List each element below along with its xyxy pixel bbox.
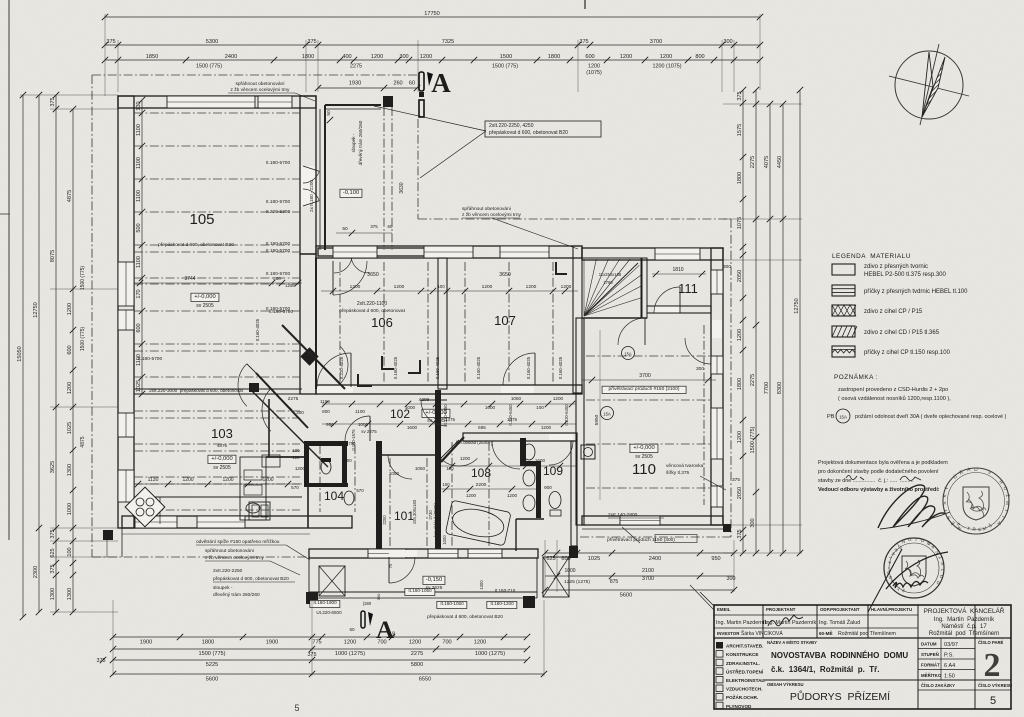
door arcs corridor 102 [421, 400, 447, 426]
svg-text:300: 300 [723, 39, 732, 45]
svg-text:ker.obklad (2500): ker.obklad (2500) [456, 440, 490, 445]
svg-text:spřáhnout obetonování: spřáhnout obetonování [235, 81, 285, 87]
svg-text:1800: 1800 [202, 640, 214, 646]
svg-text:zdivo z přesných tvornic: zdivo z přesných tvornic [864, 264, 928, 270]
svg-text:1800: 1800 [737, 378, 743, 390]
shower corner 108 [492, 441, 520, 469]
svg-text:1500 (775): 1500 (775) [492, 64, 518, 70]
svg-text:1600: 1600 [407, 425, 418, 430]
svg-text:1200: 1200 [409, 640, 421, 646]
svg-text:přepáskovat d 600, obetonovat: přepáskovat d 600, obetonovat B20 [213, 576, 289, 582]
svg-text:1810: 1810 [672, 267, 683, 273]
svg-text:It.160-4025: It.160-4025 [526, 356, 531, 379]
svg-text:sloupek -: sloupek - [351, 133, 356, 152]
svg-text:It.220-4025: It.220-4025 [339, 356, 344, 379]
svg-text:It.160-1050: It.160-1050 [440, 601, 464, 606]
svg-text:1200: 1200 [737, 329, 743, 341]
svg-text:PŮDORYS PŘÍZEMÍ: PŮDORYS PŘÍZEMÍ [790, 690, 890, 703]
svg-text:1600: 1600 [485, 405, 496, 410]
svg-text:ARCHIT.STAVEB.: ARCHIT.STAVEB. [726, 644, 763, 649]
svg-text:ZDRAV.INSTAL.: ZDRAV.INSTAL. [726, 661, 760, 666]
legend box 2 hebel partition [832, 285, 855, 296]
svg-text:2400: 2400 [225, 54, 237, 60]
dim chain inside 106 107 [321, 290, 578, 292]
wing door on right wall arc [685, 338, 711, 364]
right wall 105 lower segment [300, 254, 316, 394]
door arc 108 chamfer [441, 458, 478, 466]
north arrow compass [895, 51, 963, 119]
rooms 106 107 bottom wall [316, 385, 582, 394]
svg-text:stavby ze dne ...............: stavby ze dne ............... č. j.: ...… [818, 478, 914, 484]
dim chain top 17750 [105, 16, 760, 18]
svg-text:5: 5 [990, 695, 996, 707]
svg-text:375: 375 [370, 224, 378, 229]
svg-text:It.180-5700: It.180-5700 [266, 160, 291, 166]
svg-text:4875: 4875 [80, 436, 86, 447]
stamp zalud circle [884, 538, 944, 598]
dim chain bottom row2 [113, 648, 527, 650]
dim 1930 over entry [318, 87, 417, 89]
svg-text:110: 110 [632, 461, 656, 478]
fixtures column 108 [523, 444, 535, 460]
svg-text:1200: 1200 [344, 640, 356, 646]
svg-text:It.180-5700: It.180-5700 [269, 309, 294, 315]
room 103 level box [208, 455, 236, 463]
leader lines to entry column [374, 106, 486, 131]
svg-text:přepáskovat d 600, obetonovat: přepáskovat d 600, obetonovat B20 [427, 614, 503, 620]
svg-text:1600: 1600 [535, 458, 546, 463]
svg-text:1130: 1130 [148, 477, 159, 483]
svg-text:2275: 2275 [750, 374, 756, 386]
svg-text:It.180-5700: It.180-5700 [266, 248, 291, 254]
annotation pruduch boxed [602, 386, 686, 393]
wall between 108 109 stepped [520, 438, 526, 466]
pantry basin [262, 455, 280, 467]
svg-text:1200: 1200 [182, 477, 193, 483]
dim chain right 2275 [755, 90, 757, 553]
windows top wall 105 [167, 96, 255, 108]
svg-text:1050: 1050 [415, 466, 426, 471]
svg-text:600: 600 [585, 54, 594, 60]
svg-text:107: 107 [494, 313, 516, 328]
svg-text:přepáskovat d 600, obetonovat: přepáskovat d 600, obetonovat B20 [489, 130, 568, 136]
svg-text:100: 100 [442, 482, 450, 487]
svg-text:ker.obklad (2500): ker.obklad (2500) [433, 503, 438, 537]
svg-text:A: A [431, 68, 451, 98]
toilet 109 [549, 492, 561, 509]
svg-text:1000: 1000 [442, 535, 447, 545]
rooms 108 109 top wall [463, 433, 577, 441]
room 107 right wall / wing left wall [573, 246, 582, 393]
svg-text:2275: 2275 [350, 64, 362, 70]
svg-text:5: 5 [294, 703, 299, 713]
svg-text:sv 2505: sv 2505 [213, 465, 231, 471]
svg-text:požární odolnost dveří 30A ( d: požární odolnost dveří 30A ( dveře oplec… [855, 414, 1007, 420]
svg-text:5300: 5300 [206, 39, 218, 45]
svg-text:375: 375 [50, 97, 56, 106]
svg-text:2x It.180 - 2200: 2x It.180 - 2200 [309, 180, 314, 212]
svg-text:1225 (1275): 1225 (1275) [564, 579, 590, 585]
svg-text:1100: 1100 [136, 157, 142, 169]
svg-text:800: 800 [322, 409, 330, 414]
legend box 5 zigzag [832, 346, 855, 357]
title block signature scribble [768, 615, 803, 626]
svg-text:260: 260 [393, 81, 402, 87]
section mark A top [419, 72, 424, 91]
svg-text:1100: 1100 [355, 409, 365, 414]
corridor 102 dim chain upper [322, 403, 576, 405]
svg-text:375: 375 [50, 529, 56, 538]
dim chain right inner [742, 90, 744, 553]
rooms 106 107 top wall [316, 246, 582, 258]
svg-text:1200: 1200 [67, 382, 73, 394]
svg-text:105: 105 [189, 211, 214, 228]
svg-text:700: 700 [349, 441, 357, 446]
svg-text:1900: 1900 [266, 640, 278, 646]
svg-text:300: 300 [750, 518, 756, 527]
svg-text:přívětrávací průduch 1150 (300: přívětrávací průduch 1150 (300) [607, 536, 675, 543]
kitchen stove [125, 487, 165, 527]
svg-text:z žb věncem ocelovými trny: z žb věncem ocelovými trny [462, 212, 522, 218]
svg-text:100: 100 [437, 284, 445, 289]
dim chain inside 103 [134, 483, 302, 485]
title block header rows [714, 614, 918, 616]
roof overhang dash-dot courtyard [417, 119, 419, 219]
svg-text:It.160-710: It.160-710 [495, 588, 516, 593]
svg-text:2300: 2300 [33, 566, 39, 578]
svg-text:sv 2275: sv 2275 [361, 429, 377, 434]
svg-text:P.S.: P.S. [944, 653, 954, 659]
column crosshatch right [543, 557, 569, 597]
svg-text:2275: 2275 [288, 396, 299, 402]
door 101 top [388, 455, 412, 479]
dim chain top second [105, 44, 760, 46]
svg-text:1300: 1300 [479, 580, 484, 590]
svg-text:5225: 5225 [206, 662, 218, 668]
svg-text:3700: 3700 [639, 373, 651, 379]
svg-text:100: 100 [536, 405, 544, 410]
svg-text:2xIt.140-2800: 2xIt.140-2800 [608, 512, 638, 518]
wing bottom wall [582, 516, 723, 525]
svg-text:2275: 2275 [411, 651, 423, 657]
svg-text:It.160-4025: It.160-4025 [255, 318, 260, 341]
svg-text:1000: 1000 [405, 405, 416, 410]
kitchen counter 103 [134, 496, 302, 498]
svg-text:875: 875 [610, 579, 619, 585]
svg-text:300: 300 [723, 264, 731, 270]
page edge line left [8, 0, 10, 540]
svg-text:2050: 2050 [737, 487, 743, 499]
svg-text:PLYNOVOD: PLYNOVOD [726, 704, 752, 709]
dim chain bottom row3 [113, 659, 527, 661]
wall left of 104 lower [307, 483, 309, 528]
svg-text:12750: 12750 [33, 302, 39, 318]
svg-text:1790: 1790 [603, 280, 613, 285]
svg-text:EMEIL: EMEIL [717, 607, 731, 612]
dim chain right 12750 [799, 90, 801, 553]
svg-text:+/-0,000: +/-0,000 [194, 294, 215, 300]
svg-text:OBSAH VÝKRESU: OBSAH VÝKRESU [767, 682, 804, 687]
svg-text:odvětrání spíže #150 opatřeno: odvětrání spíže #150 opatřeno mřížkou [196, 539, 280, 545]
svg-text:1200: 1200 [460, 456, 471, 461]
signature flourish [878, 485, 946, 528]
svg-text:60: 60 [388, 224, 393, 229]
wall right of stairs [641, 258, 647, 318]
svg-text:Vedoucí odboru výstavby a živo: Vedoucí odboru výstavby a životního pros… [818, 487, 940, 493]
svg-text:INVESTOR: INVESTOR [717, 631, 740, 636]
svg-text:LEGENDA MATERIALU: LEGENDA MATERIALU [832, 253, 911, 260]
svg-text:ELEKTROINSTAL.: ELEKTROINSTAL. [726, 678, 765, 683]
svg-text:15A: 15A [839, 415, 847, 420]
svg-text:1025: 1025 [67, 422, 73, 434]
svg-text:1200: 1200 [474, 640, 486, 646]
svg-text:1200: 1200 [295, 466, 306, 471]
annotation beam top right boxed [485, 121, 601, 137]
ceiling dash-dot room 103 [134, 410, 300, 412]
svg-text:-0,150: -0,150 [426, 577, 442, 583]
outer wall top-left block room 105 [118, 96, 316, 108]
svg-text:2xIt.220-1100: 2xIt.220-1100 [357, 301, 387, 307]
svg-text:400: 400 [342, 54, 351, 60]
svg-text:2050: 2050 [737, 270, 743, 282]
svg-text:+/-0,000: +/-0,000 [211, 456, 232, 462]
svg-text:1500: 1500 [500, 54, 512, 60]
svg-text:It.180-5700: It.180-5700 [266, 241, 291, 247]
staircase block [582, 258, 642, 318]
svg-text:4450: 4450 [777, 156, 783, 168]
diagonal corridor wall upper [282, 325, 345, 389]
svg-text:2200: 2200 [476, 482, 487, 488]
top registration tick [584, 0, 586, 9]
svg-text:1200: 1200 [262, 477, 273, 483]
dim chain top third [105, 59, 760, 61]
svg-text:ČÍSLO VÝKRESU: ČÍSLO VÝKRESU [978, 683, 1012, 688]
room 109 right wall [571, 441, 577, 546]
svg-text:1000 (1275): 1000 (1275) [335, 651, 365, 657]
svg-text:170: 170 [136, 289, 142, 298]
svg-text:375: 375 [579, 39, 588, 45]
svg-text:It.160-4025: It.160-4025 [476, 356, 481, 379]
svg-text:3625: 3625 [50, 461, 56, 473]
svg-text:570: 570 [291, 485, 299, 490]
svg-text:NOVOSTAVBA RODINNÉHO DOMU: NOVOSTAVBA RODINNÉHO DOMU [771, 651, 908, 660]
svg-text:220: 220 [293, 455, 301, 460]
legend box 1 hebel [832, 264, 855, 275]
svg-text:sloupek -: sloupek - [213, 585, 233, 591]
svg-text:500: 500 [136, 223, 142, 232]
svg-text:570: 570 [356, 488, 364, 493]
svg-text:3700: 3700 [642, 576, 654, 582]
svg-text:E: E [978, 527, 982, 532]
svg-text:It.180-5700: It.180-5700 [266, 199, 291, 205]
entry bottom wall [318, 248, 427, 256]
diagonal corridor wall lower [256, 373, 308, 428]
svg-text:1300: 1300 [67, 588, 73, 600]
wall 105/103 beam line [134, 388, 302, 390]
svg-text:PROJEKTANT: PROJEKTANT [766, 607, 796, 612]
bathtub room 108 [445, 500, 511, 546]
svg-text:1075: 1075 [737, 217, 743, 229]
svg-text:dřevěný trám 260/260: dřevěný trám 260/260 [213, 592, 260, 598]
legend box 4 diagonal hatch [832, 326, 855, 337]
svg-text:1300: 1300 [67, 464, 73, 476]
svg-text:NÁZEV A MÍSTO STAVBY: NÁZEV A MÍSTO STAVBY [767, 640, 817, 645]
door opening 105 right wall [301, 166, 315, 206]
svg-text:1100: 1100 [136, 124, 142, 136]
extension guide lines bottom [112, 600, 114, 676]
svg-text:104: 104 [324, 489, 344, 503]
svg-text:1200: 1200 [507, 493, 518, 498]
diagonal crosshatch column [249, 383, 259, 392]
svg-text:956: 956 [326, 422, 334, 427]
svg-text:pro dokončení stavby podle dod: pro dokončení stavby podle dodatečného p… [818, 469, 939, 475]
svg-text:šířky tl.375: šířky tl.375 [666, 470, 690, 476]
svg-text:360: 360 [376, 593, 381, 600]
svg-text:106: 106 [371, 315, 393, 330]
svg-text:S: S [942, 501, 948, 505]
roof overhang dash-dot left block [91, 75, 93, 557]
svg-text:přepáskovat d 600, obetonovat: přepáskovat d 600, obetonovat B20 [158, 242, 234, 248]
room 106 left wall [315, 258, 317, 389]
ceiling dash-dot bottom rooms [389, 458, 391, 548]
svg-text:7700: 7700 [764, 382, 770, 394]
svg-text:1850: 1850 [146, 54, 158, 60]
pantry cell [240, 457, 266, 520]
dim chain bottom right 5600 [545, 589, 734, 591]
L flue symbols [358, 374, 372, 386]
entry column timber 260/260 [383, 96, 393, 107]
svg-text:50: 50 [326, 110, 332, 116]
bottom wall of middle block [309, 549, 538, 558]
svg-text:Projektová dokumentace byla ov: Projektová dokumentace byla ověřena a je… [818, 460, 948, 466]
extension guide lines left [50, 108, 118, 110]
chain 108 109 [440, 465, 576, 467]
svg-text:1200: 1200 [561, 284, 572, 290]
svg-text:It.160-1575: It.160-1575 [351, 429, 356, 451]
svg-text:HLAVNÍ.PROJEKTU: HLAVNÍ.PROJEKTU [871, 607, 912, 612]
svg-text:sv 2505: sv 2505 [196, 303, 214, 309]
svg-text:1025: 1025 [588, 556, 600, 562]
entry level box [340, 189, 362, 197]
svg-text:příčky z přesných tvdrnic HEBE: příčky z přesných tvdrnic HEBEL tl.100 [864, 289, 968, 295]
door arc 107 bottom [501, 386, 534, 393]
svg-text:600: 600 [67, 345, 73, 354]
svg-text:108: 108 [471, 466, 491, 480]
svg-text:It.220-6450: It.220-6450 [443, 404, 448, 426]
svg-text:130: 130 [136, 101, 142, 110]
svg-text:15A: 15A [603, 412, 611, 417]
dim chain bottom row4 [113, 673, 544, 675]
svg-text:+/-0,000: +/-0,000 [633, 445, 654, 451]
svg-text:Náměstí č.p. 17: Náměstí č.p. 17 [941, 624, 987, 630]
svg-text:5600: 5600 [206, 677, 218, 683]
room 105 level box [191, 293, 219, 301]
wall below stairs [582, 317, 647, 319]
title block data rows [918, 648, 975, 650]
svg-text:spřáhnout obetonováni: spřáhnout obetonováni [205, 548, 254, 554]
svg-text:5800: 5800 [411, 662, 423, 668]
svg-text:It.160-1200: It.160-1200 [490, 601, 514, 606]
dim chain left 375/8075/3625 [55, 95, 57, 612]
svg-text:900: 900 [344, 458, 352, 463]
svg-text:950: 950 [711, 556, 720, 562]
svg-text:4075: 4075 [764, 156, 770, 168]
roof overhang dash-dot wing [730, 219, 732, 537]
porch labels [405, 588, 435, 595]
svg-text:Ing. Martin Pazderník: Ing. Martin Pazderník [934, 617, 995, 623]
svg-text:3650: 3650 [367, 272, 379, 278]
svg-text:1200: 1200 [553, 396, 564, 401]
svg-text:75: 75 [388, 563, 393, 568]
room 103 bottom wall [122, 516, 352, 528]
svg-text:spřáhnout obetonováni: spřáhnout obetonováni [462, 206, 511, 212]
door arc 106 to corridor [317, 353, 351, 387]
svg-text:1100: 1100 [136, 256, 142, 268]
svg-text:It.220-5300: It.220-5300 [266, 209, 291, 215]
toilet 104 [344, 491, 354, 505]
svg-text:900: 900 [544, 485, 552, 490]
svg-text:600: 600 [136, 323, 142, 332]
svg-text:1200: 1200 [526, 284, 537, 290]
svg-text:375: 375 [106, 39, 115, 45]
svg-text:( osová vzdálenost nosníků 120: ( osová vzdálenost nosníků 1200,resp.110… [838, 395, 951, 402]
svg-text:100: 100 [293, 448, 301, 453]
dim chain right 4075/7700 [769, 104, 771, 553]
kitchen sink [249, 502, 270, 520]
svg-text:1050: 1050 [511, 396, 522, 401]
svg-text:2200: 2200 [382, 515, 387, 525]
svg-text:1000: 1000 [67, 503, 73, 515]
svg-text:2xIt.220-3000 přepáskovat d 6: 2xIt.220-3000 přepáskovat d 600, obetono… [149, 388, 243, 393]
svg-text:775: 775 [312, 640, 321, 646]
svg-text:3630: 3630 [399, 182, 405, 193]
extension guide lines right [723, 103, 802, 105]
svg-text:2100: 2100 [642, 568, 654, 574]
svg-text:1500 (775): 1500 (775) [80, 327, 86, 352]
checkbox column [716, 642, 723, 649]
svg-text:300: 300 [399, 54, 408, 60]
svg-text:přepáskovat d 600, obetonovat: přepáskovat d 600, obetonovat [339, 308, 406, 314]
svg-text:1300: 1300 [50, 588, 56, 600]
svg-text:111: 111 [678, 281, 698, 296]
svg-text:17750: 17750 [424, 11, 440, 17]
section mark A bottom [361, 611, 365, 628]
svg-text:1800: 1800 [548, 54, 560, 60]
chamfer wall 108 [441, 437, 464, 462]
svg-text:1800: 1800 [737, 172, 743, 184]
svg-text:7325: 7325 [442, 39, 454, 45]
svg-text:1:50: 1:50 [944, 674, 955, 680]
svg-text:1100: 1100 [136, 190, 142, 202]
svg-text:6550: 6550 [419, 677, 431, 683]
svg-text:VZDUCHOTECH.: VZDUCHOTECH. [726, 687, 763, 692]
svg-text:1200: 1200 [620, 54, 632, 60]
svg-text:FORMÁT: FORMÁT [921, 663, 940, 668]
stair exit arc to 110 [618, 318, 645, 345]
svg-text:It.160-4025: It.160-4025 [558, 356, 563, 379]
svg-text:HEBEL P2-500 tl.375 resp.300: HEBEL P2-500 tl.375 resp.300 [864, 272, 946, 278]
svg-text:375: 375 [732, 477, 740, 483]
svg-text:zdivo z cihel CD / P15 tl.365: zdivo z cihel CD / P15 tl.365 [864, 330, 940, 336]
svg-text:11x250x188: 11x250x188 [599, 272, 622, 277]
room 104 door arc [345, 416, 370, 441]
svg-text:3744: 3744 [184, 276, 195, 282]
svg-text:STUPEŇ: STUPEŇ [921, 652, 939, 657]
svg-text:Ut.220-6500: Ut.220-6500 [316, 610, 342, 615]
svg-text:375: 375 [307, 39, 316, 45]
svg-text:375: 375 [737, 91, 743, 100]
svg-text:ČÍSLO PARÉ: ČÍSLO PARÉ [978, 640, 1003, 645]
